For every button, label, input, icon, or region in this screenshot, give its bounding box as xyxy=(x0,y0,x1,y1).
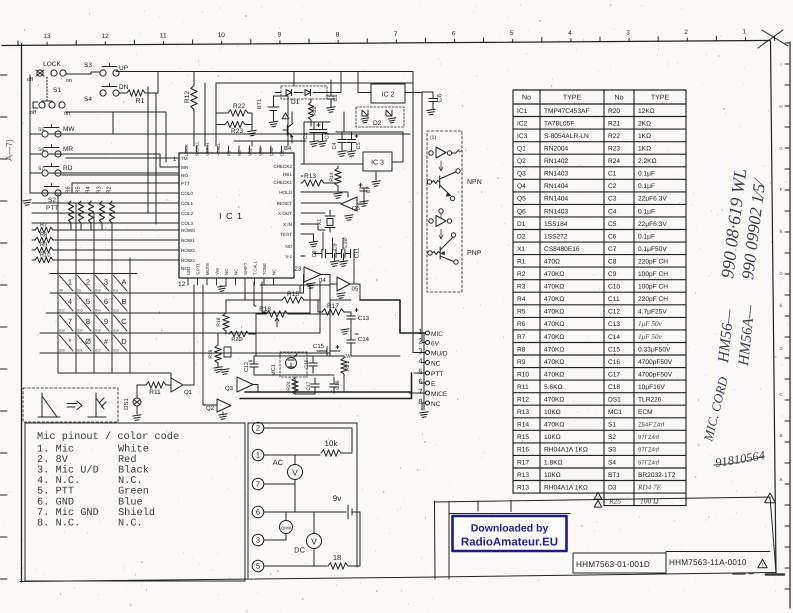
svg-text:D: D xyxy=(121,337,127,346)
ground R23 xyxy=(248,130,256,136)
svg-text:10KΩ: 10KΩ xyxy=(544,472,561,479)
svg-text:DN: DN xyxy=(119,84,129,91)
svg-text:10k: 10k xyxy=(325,439,339,448)
svg-text:Mic pinout / color code: Mic pinout / color code xyxy=(37,431,179,443)
resistor R24 vertical xyxy=(292,378,298,394)
svg-text:RH04A1A 1KΩ: RH04A1A 1KΩ xyxy=(544,447,588,454)
svg-text:18: 18 xyxy=(333,553,341,562)
svg-text:B: B xyxy=(779,433,782,438)
svg-text:C11: C11 xyxy=(608,296,620,303)
connector wires xyxy=(412,343,425,411)
arrow R16 xyxy=(275,318,279,327)
wire test point 7 xyxy=(264,483,295,485)
svg-text:220pF CH: 220pF CH xyxy=(638,258,668,265)
wire SPTT to Q2 xyxy=(203,285,217,405)
svg-text:C15: C15 xyxy=(313,343,325,350)
svg-text:OHM: OHM xyxy=(281,526,291,531)
svg-text:IC2: IC2 xyxy=(517,120,528,127)
svg-text:C6: C6 xyxy=(608,233,617,240)
svg-text:P6: P6 xyxy=(226,150,231,156)
dashed box DS1 display xyxy=(23,388,118,422)
svg-text:C9: C9 xyxy=(608,271,617,278)
svg-text:No: No xyxy=(522,95,531,102)
svg-text:R24: R24 xyxy=(286,381,292,390)
svg-text:S.PT1: S.PT1 xyxy=(196,262,201,275)
svg-text:C7: C7 xyxy=(366,186,372,193)
wire branch x113 xyxy=(112,112,114,134)
svg-text:R12: R12 xyxy=(517,397,529,404)
svg-text:Q2: Q2 xyxy=(517,158,526,165)
svg-text:C15: C15 xyxy=(608,346,620,353)
meter test circuit box xyxy=(248,423,357,578)
svg-text:1SS184: 1SS184 xyxy=(544,221,568,228)
svg-text:R16: R16 xyxy=(517,447,529,454)
svg-text:PTT: PTT xyxy=(431,371,443,378)
ground DS1 xyxy=(133,415,141,421)
svg-text:F: F xyxy=(780,187,783,192)
capacitor C9 xyxy=(332,249,334,257)
capacitor C17 xyxy=(311,383,319,385)
svg-text:7: 7 xyxy=(256,480,260,489)
svg-text:IC1: IC1 xyxy=(517,108,528,115)
ground S2 xyxy=(23,200,31,206)
svg-text:R11: R11 xyxy=(517,384,529,391)
capacitor C8 xyxy=(321,249,323,257)
svg-text:Q3: Q3 xyxy=(225,385,234,392)
svg-text:X1: X1 xyxy=(317,219,323,226)
scan smudges bottom right xyxy=(766,573,784,576)
wire test point 2 xyxy=(264,428,352,452)
svg-text:470KΩ: 470KΩ xyxy=(544,271,564,278)
svg-text:AC: AC xyxy=(273,458,284,467)
svg-text:S5: S5 xyxy=(38,127,44,133)
svg-text:5.6KΩ: 5.6KΩ xyxy=(544,384,563,391)
resistor R23 xyxy=(225,121,245,127)
svg-text:RN1402: RN1402 xyxy=(544,158,569,165)
svg-text:R17: R17 xyxy=(517,459,529,466)
svg-text:1μF 50v: 1μF 50v xyxy=(638,320,663,328)
svg-text:C4: C4 xyxy=(608,208,617,215)
resistor 10k xyxy=(321,450,341,456)
svg-text:NC: NC xyxy=(285,244,292,249)
svg-text:C13: C13 xyxy=(608,321,620,328)
svg-text:BR2032-1T2: BR2032-1T2 xyxy=(638,472,676,479)
svg-text:R15: R15 xyxy=(287,291,299,298)
svg-text:2KΩ: 2KΩ xyxy=(638,120,651,127)
svg-text:S12: S12 xyxy=(59,309,65,313)
svg-text:CHECK2: CHECK2 xyxy=(273,164,292,169)
svg-text:TONE: TONE xyxy=(262,263,267,275)
IC1 input fan wires xyxy=(32,158,179,223)
svg-text:S4: S4 xyxy=(84,96,92,103)
svg-text:A—7): A—7) xyxy=(4,139,14,161)
svg-text:C18: C18 xyxy=(608,384,620,391)
wire RD to IC xyxy=(49,172,179,174)
svg-text:R18: R18 xyxy=(216,317,222,326)
svg-text:4: 4 xyxy=(418,357,422,366)
svg-text:1: 1 xyxy=(742,29,746,36)
svg-text:11: 11 xyxy=(160,32,167,39)
wire C4 C5 to IC3 right xyxy=(336,132,403,162)
svg-text:470KΩ: 470KΩ xyxy=(544,309,564,316)
svg-text:R4: R4 xyxy=(517,296,526,303)
svg-text:T.CALL: T.CALL xyxy=(253,260,258,275)
svg-text:12: 12 xyxy=(101,33,109,40)
left frame line xyxy=(21,44,23,582)
diode D1 dashed box xyxy=(281,86,327,99)
display arrow xyxy=(67,401,82,410)
svg-text:470KΩ: 470KΩ xyxy=(544,346,564,353)
svg-text:RD4·7E: RD4·7E xyxy=(637,483,662,491)
right frame outer line xyxy=(789,42,791,608)
parts table grid xyxy=(513,90,686,506)
crystal X1 xyxy=(325,210,335,232)
svg-text:100pF CH: 100pF CH xyxy=(638,284,668,291)
keypad row risers xyxy=(260,285,330,353)
svg-text:C13: C13 xyxy=(358,315,370,322)
svg-text:TLR226: TLR226 xyxy=(638,397,662,404)
op-amp ic IC1 box xyxy=(179,153,294,278)
svg-text:R11: R11 xyxy=(149,389,161,396)
switch S2 PTT xyxy=(42,190,48,196)
left rail xyxy=(29,75,31,193)
svg-text:S22: S22 xyxy=(95,349,101,353)
keypad key 9 xyxy=(96,315,110,331)
connector pin 5 PTT xyxy=(426,371,430,375)
svg-text:R8: R8 xyxy=(517,346,526,353)
resistor R9 xyxy=(35,247,53,253)
svg-text:7: 7 xyxy=(68,317,72,326)
title block outline xyxy=(434,497,776,579)
svg-text:S1: S1 xyxy=(608,422,616,429)
svg-text:4: 4 xyxy=(68,297,72,306)
svg-text:R13: R13 xyxy=(517,484,529,491)
switch S7 RD xyxy=(42,170,48,176)
svg-text:6V: 6V xyxy=(431,341,440,348)
title box HHM7563-11A-0010 xyxy=(666,552,770,573)
keypad key B xyxy=(114,295,128,311)
right frame tick marks xyxy=(785,43,790,589)
wire top rail xyxy=(116,71,413,73)
svg-text:1μF 50v: 1μF 50v xyxy=(638,333,663,341)
svg-text:V-z: V-z xyxy=(285,254,292,259)
svg-text:B: B xyxy=(121,297,126,306)
svg-text:100 Ω: 100 Ω xyxy=(640,497,659,506)
svg-text:6: 6 xyxy=(104,297,108,306)
voltmeter DC xyxy=(307,534,322,549)
svg-text:C16: C16 xyxy=(608,359,620,366)
svg-text:V: V xyxy=(292,468,298,478)
ruler tick marks top xyxy=(18,36,775,45)
svg-text:LOCK: LOCK xyxy=(43,61,61,68)
switch S6 MR xyxy=(42,151,48,157)
svg-text:6: 6 xyxy=(452,31,456,38)
ic IC3 box xyxy=(363,152,392,171)
svg-text:R2: R2 xyxy=(517,271,526,278)
svg-text:COL1: COL1 xyxy=(181,201,193,206)
svg-text:0.1μF: 0.1μF xyxy=(638,208,655,215)
svg-text:DS0: DS0 xyxy=(269,147,274,156)
svg-text:CHECK1: CHECK1 xyxy=(273,180,292,185)
capacitor C11 xyxy=(350,249,352,257)
resistor R8 xyxy=(35,237,53,243)
svg-text:C2: C2 xyxy=(608,183,617,190)
wires audio section xyxy=(254,356,344,394)
svg-text:23: 23 xyxy=(295,266,302,273)
svg-text:RN1404: RN1404 xyxy=(544,196,569,203)
keypad key 8 xyxy=(78,315,92,331)
svg-text:97ΓZ4τf: 97ΓZ4τf xyxy=(638,447,659,454)
svg-text:TYPE: TYPE xyxy=(563,95,582,102)
svg-text:13: 13 xyxy=(43,33,51,40)
svg-text:R2Ø: R2Ø xyxy=(231,337,243,343)
svg-text:S2: S2 xyxy=(608,434,616,441)
svg-text:NC: NC xyxy=(237,150,242,156)
svg-text:R25: R25 xyxy=(312,106,318,115)
svg-text:Q1: Q1 xyxy=(517,146,526,153)
svg-text:S3: S3 xyxy=(608,447,616,454)
svg-text:470KΩ: 470KΩ xyxy=(544,359,564,366)
svg-text:470KΩ: 470KΩ xyxy=(544,296,564,303)
svg-text:S14: S14 xyxy=(95,309,101,313)
capacitor row grounds xyxy=(335,254,344,262)
svg-text:R1: R1 xyxy=(517,258,526,265)
svg-text:S6: S6 xyxy=(38,147,44,153)
op-amp Q1 xyxy=(171,378,183,392)
svg-text:RESET: RESET xyxy=(277,201,293,206)
svg-text:NC: NC xyxy=(224,269,229,275)
resistor R14 vertical xyxy=(335,168,341,186)
svg-text:NC: NC xyxy=(431,361,441,368)
wire caps C2 C3 top xyxy=(304,112,344,164)
svg-text:2: 2 xyxy=(256,424,260,433)
capacitor C12 xyxy=(250,363,258,365)
wire MR to IC xyxy=(49,154,179,167)
svg-text:Vss: Vss xyxy=(215,268,220,275)
svg-text:4700pF50V: 4700pF50V xyxy=(638,371,673,378)
svg-text:UP: UP xyxy=(119,65,128,72)
resistor R12 xyxy=(193,72,195,146)
wire test point 6 xyxy=(264,511,346,513)
capacitor C15 xyxy=(326,347,328,355)
test point circle 3 xyxy=(252,534,264,546)
keypad key D xyxy=(114,335,128,351)
svg-text:NC: NC xyxy=(431,401,441,408)
svg-text:C14: C14 xyxy=(358,336,370,343)
wire lock to S3 xyxy=(66,72,100,74)
svg-text:COL2: COL2 xyxy=(181,211,193,216)
svg-text:A: A xyxy=(779,477,782,482)
vertical bus wires xyxy=(148,87,156,224)
svg-text:1: 1 xyxy=(418,327,422,336)
svg-text:MR: MR xyxy=(181,165,189,170)
switch S5 MW xyxy=(42,131,48,137)
svg-text:*: * xyxy=(69,337,72,346)
resistor R1 xyxy=(127,90,145,96)
svg-text:8. N.C.: 8. N.C. xyxy=(37,517,80,529)
svg-text:Q4: Q4 xyxy=(517,183,526,190)
svg-text:VS2: VS2 xyxy=(248,147,253,156)
connector pin 3 MU/D xyxy=(426,351,430,355)
svg-text:R13: R13 xyxy=(304,173,316,180)
svg-text:S21: S21 xyxy=(77,349,83,353)
svg-text:R7: R7 xyxy=(40,223,47,229)
bottom right warning triangle xyxy=(765,493,776,503)
capacitor small box xyxy=(224,347,231,357)
title box HHM7563-01-001D xyxy=(573,553,666,573)
test point circle 6 xyxy=(252,506,264,518)
svg-text:6: 6 xyxy=(418,377,422,386)
svg-text:I: I xyxy=(780,62,781,67)
capacitor C13 xyxy=(347,315,355,317)
capacitor C7 xyxy=(360,187,368,189)
svg-text:R12: R12 xyxy=(184,91,191,103)
keypad key 6 xyxy=(96,295,110,311)
svg-text:S.CALL: S.CALL xyxy=(195,141,200,156)
svg-text:R7: R7 xyxy=(517,334,526,341)
svg-text:S15: S15 xyxy=(113,309,119,313)
svg-text:R2: R2 xyxy=(106,186,113,193)
svg-text:R9: R9 xyxy=(40,242,47,249)
wire Q1 to IC1 LED pin xyxy=(183,285,194,385)
svg-text:G: G xyxy=(779,146,783,151)
svg-text:R3: R3 xyxy=(517,284,526,291)
wires capacitor row xyxy=(314,253,355,255)
resistor R18 vertical xyxy=(223,313,229,331)
svg-text:R20: R20 xyxy=(608,108,620,115)
svg-text:N.C.: N.C. xyxy=(118,517,143,529)
svg-text:R5: R5 xyxy=(517,309,526,316)
svg-text:R23: R23 xyxy=(608,146,620,153)
svg-text:470KΩ: 470KΩ xyxy=(544,284,564,291)
svg-text:R21: R21 xyxy=(345,361,351,371)
svg-text:0.33μF50V: 0.33μF50V xyxy=(638,346,671,353)
svg-text:1: 1 xyxy=(256,451,260,460)
svg-text:8: 8 xyxy=(86,317,90,326)
svg-text:COL3: COL3 xyxy=(181,221,193,226)
svg-text:7: 7 xyxy=(418,387,422,396)
microphone MC1 dashed box xyxy=(280,352,307,377)
capacitor C14 xyxy=(347,339,355,341)
svg-text:10KΩ: 10KΩ xyxy=(544,409,561,416)
svg-text:C18: C18 xyxy=(335,380,341,389)
switch S1 second pole xyxy=(39,102,45,108)
svg-text:PNP: PNP xyxy=(467,250,482,257)
svg-text:S1: S1 xyxy=(53,87,61,94)
keypad key * xyxy=(60,335,74,351)
keypad grid xyxy=(58,193,130,372)
svg-text:R6: R6 xyxy=(65,186,72,193)
capacitor C1 xyxy=(327,95,335,97)
svg-text:X1: X1 xyxy=(517,246,525,253)
table warning triangle 2 xyxy=(594,500,602,507)
svg-text:S9: S9 xyxy=(77,289,81,293)
sample buffer 2 xyxy=(439,209,443,213)
ic bottom grounds xyxy=(218,286,226,292)
svg-text:D3: D3 xyxy=(279,150,284,156)
connector pin 6 E xyxy=(426,381,430,385)
svg-text:No: No xyxy=(615,95,624,102)
svg-text:!: ! xyxy=(762,562,763,567)
op-amp Q2 xyxy=(217,399,231,412)
svg-text:C14: C14 xyxy=(608,334,620,341)
svg-text:DS1: DS1 xyxy=(123,398,130,410)
svg-text:C12: C12 xyxy=(244,362,250,372)
svg-text:2: 2 xyxy=(418,337,422,346)
svg-text:MR: MR xyxy=(63,146,73,153)
svg-text:5: 5 xyxy=(86,297,90,306)
svg-text:470Ω: 470Ω xyxy=(544,258,560,265)
svg-text:0.1μF50V: 0.1μF50V xyxy=(638,246,667,253)
svg-text:TEST: TEST xyxy=(280,232,292,237)
capacitor C2 xyxy=(310,129,318,131)
ohmmeter xyxy=(280,521,293,534)
svg-text:S23: S23 xyxy=(113,349,119,353)
svg-text:LED: LED xyxy=(186,267,191,275)
svg-text:X.OUT: X.OUT xyxy=(278,211,292,216)
keypad key 2 xyxy=(78,276,92,292)
capacitor row risers xyxy=(323,232,343,250)
svg-text:R19: R19 xyxy=(208,349,214,358)
svg-text:D1: D1 xyxy=(517,221,526,228)
connector pin 1 MIC xyxy=(426,331,430,335)
svg-text:R10: R10 xyxy=(517,371,529,378)
svg-text:C9: C9 xyxy=(333,243,339,250)
svg-text:MUTE: MUTE xyxy=(205,263,210,275)
svg-text:S18: S18 xyxy=(95,329,101,333)
svg-text:TMP47C453AF: TMP47C453AF xyxy=(544,108,589,115)
svg-text:R1: R1 xyxy=(136,98,145,105)
svg-text:12: 12 xyxy=(178,281,186,288)
capacitor C3 xyxy=(318,129,326,131)
svg-text:ECM: ECM xyxy=(638,409,653,416)
left frame tick marks xyxy=(0,75,7,579)
resistor R7 xyxy=(35,227,53,233)
resistor R10 xyxy=(35,257,53,263)
svg-text:R8: R8 xyxy=(40,232,47,239)
svg-text:C12: C12 xyxy=(608,309,620,316)
keypad key 3 xyxy=(96,276,110,292)
resistor R16 xyxy=(266,311,288,317)
svg-text:C7: C7 xyxy=(608,246,617,253)
svg-text:PTT: PTT xyxy=(46,205,58,212)
svg-text:5: 5 xyxy=(256,562,260,571)
keypad key 4 xyxy=(60,295,74,311)
display symbol right xyxy=(88,393,106,417)
svg-text:R22: R22 xyxy=(233,103,245,110)
svg-text:2: 2 xyxy=(86,278,90,287)
keypad key 7 xyxy=(60,315,74,331)
connector pin 8 NC xyxy=(426,401,430,405)
wire IC2 xyxy=(358,72,422,93)
svg-text:10KΩ: 10KΩ xyxy=(544,434,561,441)
wire R1 up to rail xyxy=(145,72,158,93)
svg-text:on: on xyxy=(66,78,72,84)
svg-text:C6: C6 xyxy=(437,93,444,102)
connector ground xyxy=(420,412,428,418)
svg-text:470KΩ: 470KΩ xyxy=(544,422,564,429)
svg-text:+CALL: +CALL xyxy=(216,142,221,156)
svg-text:CS8480E16: CS8480E16 xyxy=(544,246,580,253)
svg-text:DC: DC xyxy=(294,546,305,555)
wire keypad bottom to Q1 xyxy=(58,373,171,381)
wire PTT to IC xyxy=(70,183,179,193)
svg-text:RN1403: RN1403 xyxy=(544,208,569,215)
wires IC1 right pins xyxy=(301,176,348,256)
svg-text:R5: R5 xyxy=(76,186,82,193)
svg-text:S3: S3 xyxy=(84,62,92,69)
wire MW long xyxy=(49,133,410,135)
